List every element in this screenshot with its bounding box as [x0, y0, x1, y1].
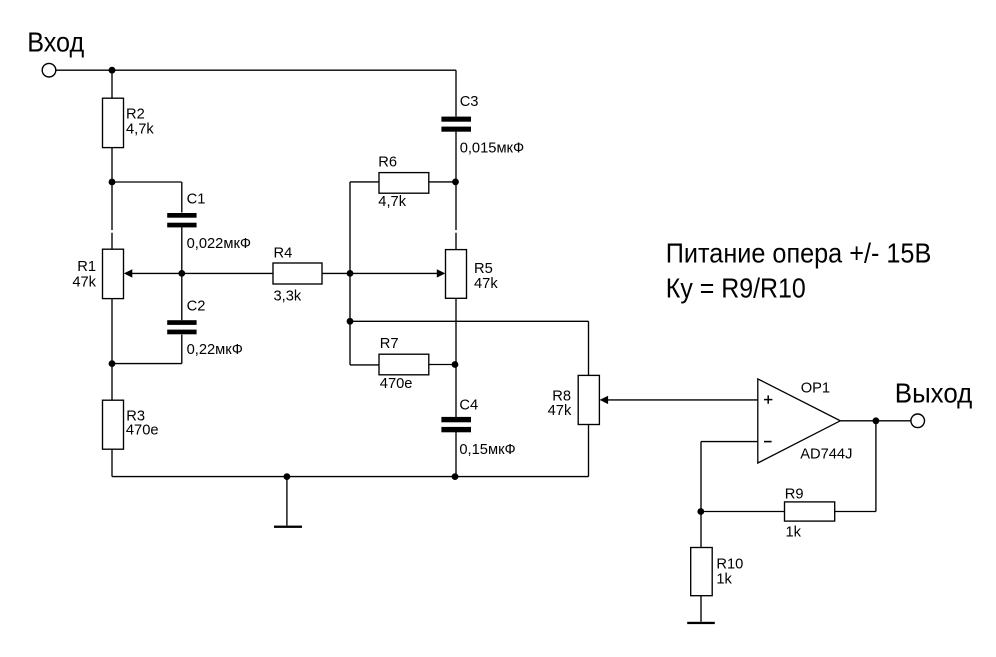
wire R4 right to node E: [322, 272, 350, 274]
resistor R8 (potentiometer): [578, 375, 599, 424]
ground symbol (main): [274, 526, 302, 528]
svg-text:AD744J: AD744J: [800, 447, 852, 463]
wire R6 right to node F: [429, 181, 456, 183]
op-amp OP1 minus input marker: [764, 441, 772, 443]
resistor R2: [103, 98, 124, 147]
output terminal: [911, 414, 925, 428]
junction node D (C1/C2/R1 wiper/R4): [178, 270, 185, 277]
resistor R5 (potentiometer): [446, 250, 467, 299]
wire to R6 left: [350, 181, 379, 183]
wire R9 right to output branch: [835, 511, 876, 513]
junction node A (input rail): [109, 67, 116, 74]
svg-text:R6: R6: [378, 155, 397, 171]
junction node E2 (branch to R8): [347, 318, 354, 325]
junction node F (R6/C3/R5): [452, 179, 459, 186]
svg-text:0,22мкФ: 0,22мкФ: [187, 342, 243, 358]
junction node B (R2/R1/C1): [109, 179, 116, 186]
junction node G (R7/R5/C4): [452, 361, 459, 368]
resistor R3: [103, 400, 124, 449]
svg-text:47k: 47k: [548, 403, 572, 419]
arrow R8 wiper: [600, 396, 609, 404]
svg-text:1k: 1k: [716, 572, 732, 588]
junction node C (R1/R3/C2): [109, 360, 116, 367]
resistor R9: [785, 502, 835, 521]
wire C2 bottom to node C: [112, 363, 182, 365]
svg-text:47k: 47k: [72, 274, 96, 290]
svg-text:0,022мкФ: 0,022мкФ: [187, 236, 251, 252]
wire input top rail: [56, 69, 456, 71]
wire R10 bottom to ground: [700, 596, 702, 622]
input terminal: [42, 63, 56, 77]
svg-text:R1: R1: [77, 259, 96, 275]
wire R2 bottom to R1 top (lower): [111, 233, 113, 250]
capacitor C3: [441, 117, 471, 132]
svg-text:OP1: OP1: [801, 380, 830, 396]
svg-text:C1: C1: [187, 192, 206, 208]
svg-text:R2: R2: [126, 107, 145, 123]
resistor R4: [273, 263, 322, 284]
wire C3 bottom to R5 top (lower): [455, 233, 457, 250]
ground symbol (R10): [687, 622, 715, 624]
wire R2 bottom to R1 top (upper): [111, 148, 113, 231]
capacitor C4: [441, 417, 471, 432]
wire output down to R9 right branch: [875, 421, 877, 512]
wire bottom ground rail: [112, 476, 589, 478]
svg-text:Питание опера +/- 15В: Питание опера +/- 15В: [666, 238, 932, 269]
svg-text:47k: 47k: [474, 276, 498, 292]
svg-text:Выход: Выход: [895, 378, 973, 409]
svg-text:R4: R4: [274, 246, 293, 262]
wire ground rail to ground symbol: [286, 477, 288, 526]
wire R8 wiper to op-amp noninverting input: [607, 399, 758, 401]
wire down to R8 top: [588, 321, 590, 375]
wire to R7 left: [350, 364, 379, 366]
svg-text:4,7k: 4,7k: [378, 194, 406, 210]
capacitor C1: [167, 213, 196, 227]
resistor R6: [379, 173, 429, 194]
wire op-amp output to terminal: [840, 420, 911, 422]
wire node D to R4 left: [182, 272, 273, 274]
junction output node: [873, 417, 880, 424]
wire C1 top lead: [181, 182, 183, 213]
svg-text:470e: 470e: [126, 423, 159, 439]
svg-text:C3: C3: [460, 94, 479, 110]
wire R5 bottom through node G to C4 top: [455, 298, 457, 417]
wire node H to R9 left: [701, 511, 785, 513]
wire C4 bottom to ground rail: [455, 432, 457, 477]
wire R3 bottom to ground rail: [111, 449, 113, 476]
svg-text:R7: R7: [380, 336, 399, 352]
junction node H (R9/R10/inverting input): [697, 508, 704, 515]
wire R7 right to node G: [429, 364, 455, 366]
resistor R7: [379, 354, 429, 375]
resistor R1 (potentiometer): [103, 249, 124, 298]
svg-text:470e: 470e: [380, 376, 413, 392]
junction ground rail to ground: [284, 473, 291, 480]
svg-text:Ку = R9/R10: Ку = R9/R10: [666, 272, 806, 303]
svg-text:R9: R9: [785, 487, 804, 503]
svg-text:4,7k: 4,7k: [126, 121, 154, 137]
wire C1 bottom to C2 top through node D: [181, 227, 183, 320]
junction node E (R4/R5 wiper): [347, 270, 354, 277]
resistor R10: [691, 548, 713, 596]
wire R8 bottom to ground rail: [588, 425, 590, 477]
wire op-amp inverting input: [701, 441, 758, 443]
svg-text:R5: R5: [474, 261, 493, 277]
wire C2 bottom lead: [181, 335, 183, 364]
svg-text:Вход: Вход: [27, 27, 84, 58]
op-amp OP1 plus input marker: [764, 395, 772, 403]
wire C3 bottom through node F (upper): [455, 132, 457, 231]
wire inverting input down through node H to R10 top: [700, 442, 702, 548]
svg-text:C4: C4: [459, 397, 478, 413]
junction C4 to ground rail: [452, 473, 459, 480]
svg-text:3,3k: 3,3k: [274, 289, 302, 305]
wire top rail down to C3: [455, 70, 457, 116]
wire R1 bottom to R3 top: [111, 299, 113, 401]
wire node D to R1 wiper arrow: [126, 272, 182, 274]
op-amp OP1 triangle: [758, 379, 841, 463]
svg-text:C2: C2: [187, 299, 206, 315]
capacitor C2: [167, 320, 196, 334]
svg-text:0,015мкФ: 0,015мкФ: [460, 140, 524, 156]
svg-text:R10: R10: [716, 556, 743, 572]
wire vertical node E branch: [349, 182, 351, 365]
arrow R1 wiper: [124, 269, 133, 277]
wire node E2 to R8 top branch: [350, 320, 589, 322]
wire node B to C1: [112, 181, 182, 183]
svg-text:1k: 1k: [786, 524, 802, 540]
wire node E to R5 wiper arrow: [350, 272, 437, 274]
svg-text:0,15мкФ: 0,15мкФ: [459, 442, 515, 458]
wire junction A to R2 top: [111, 70, 113, 98]
arrow R5 wiper: [437, 269, 446, 277]
